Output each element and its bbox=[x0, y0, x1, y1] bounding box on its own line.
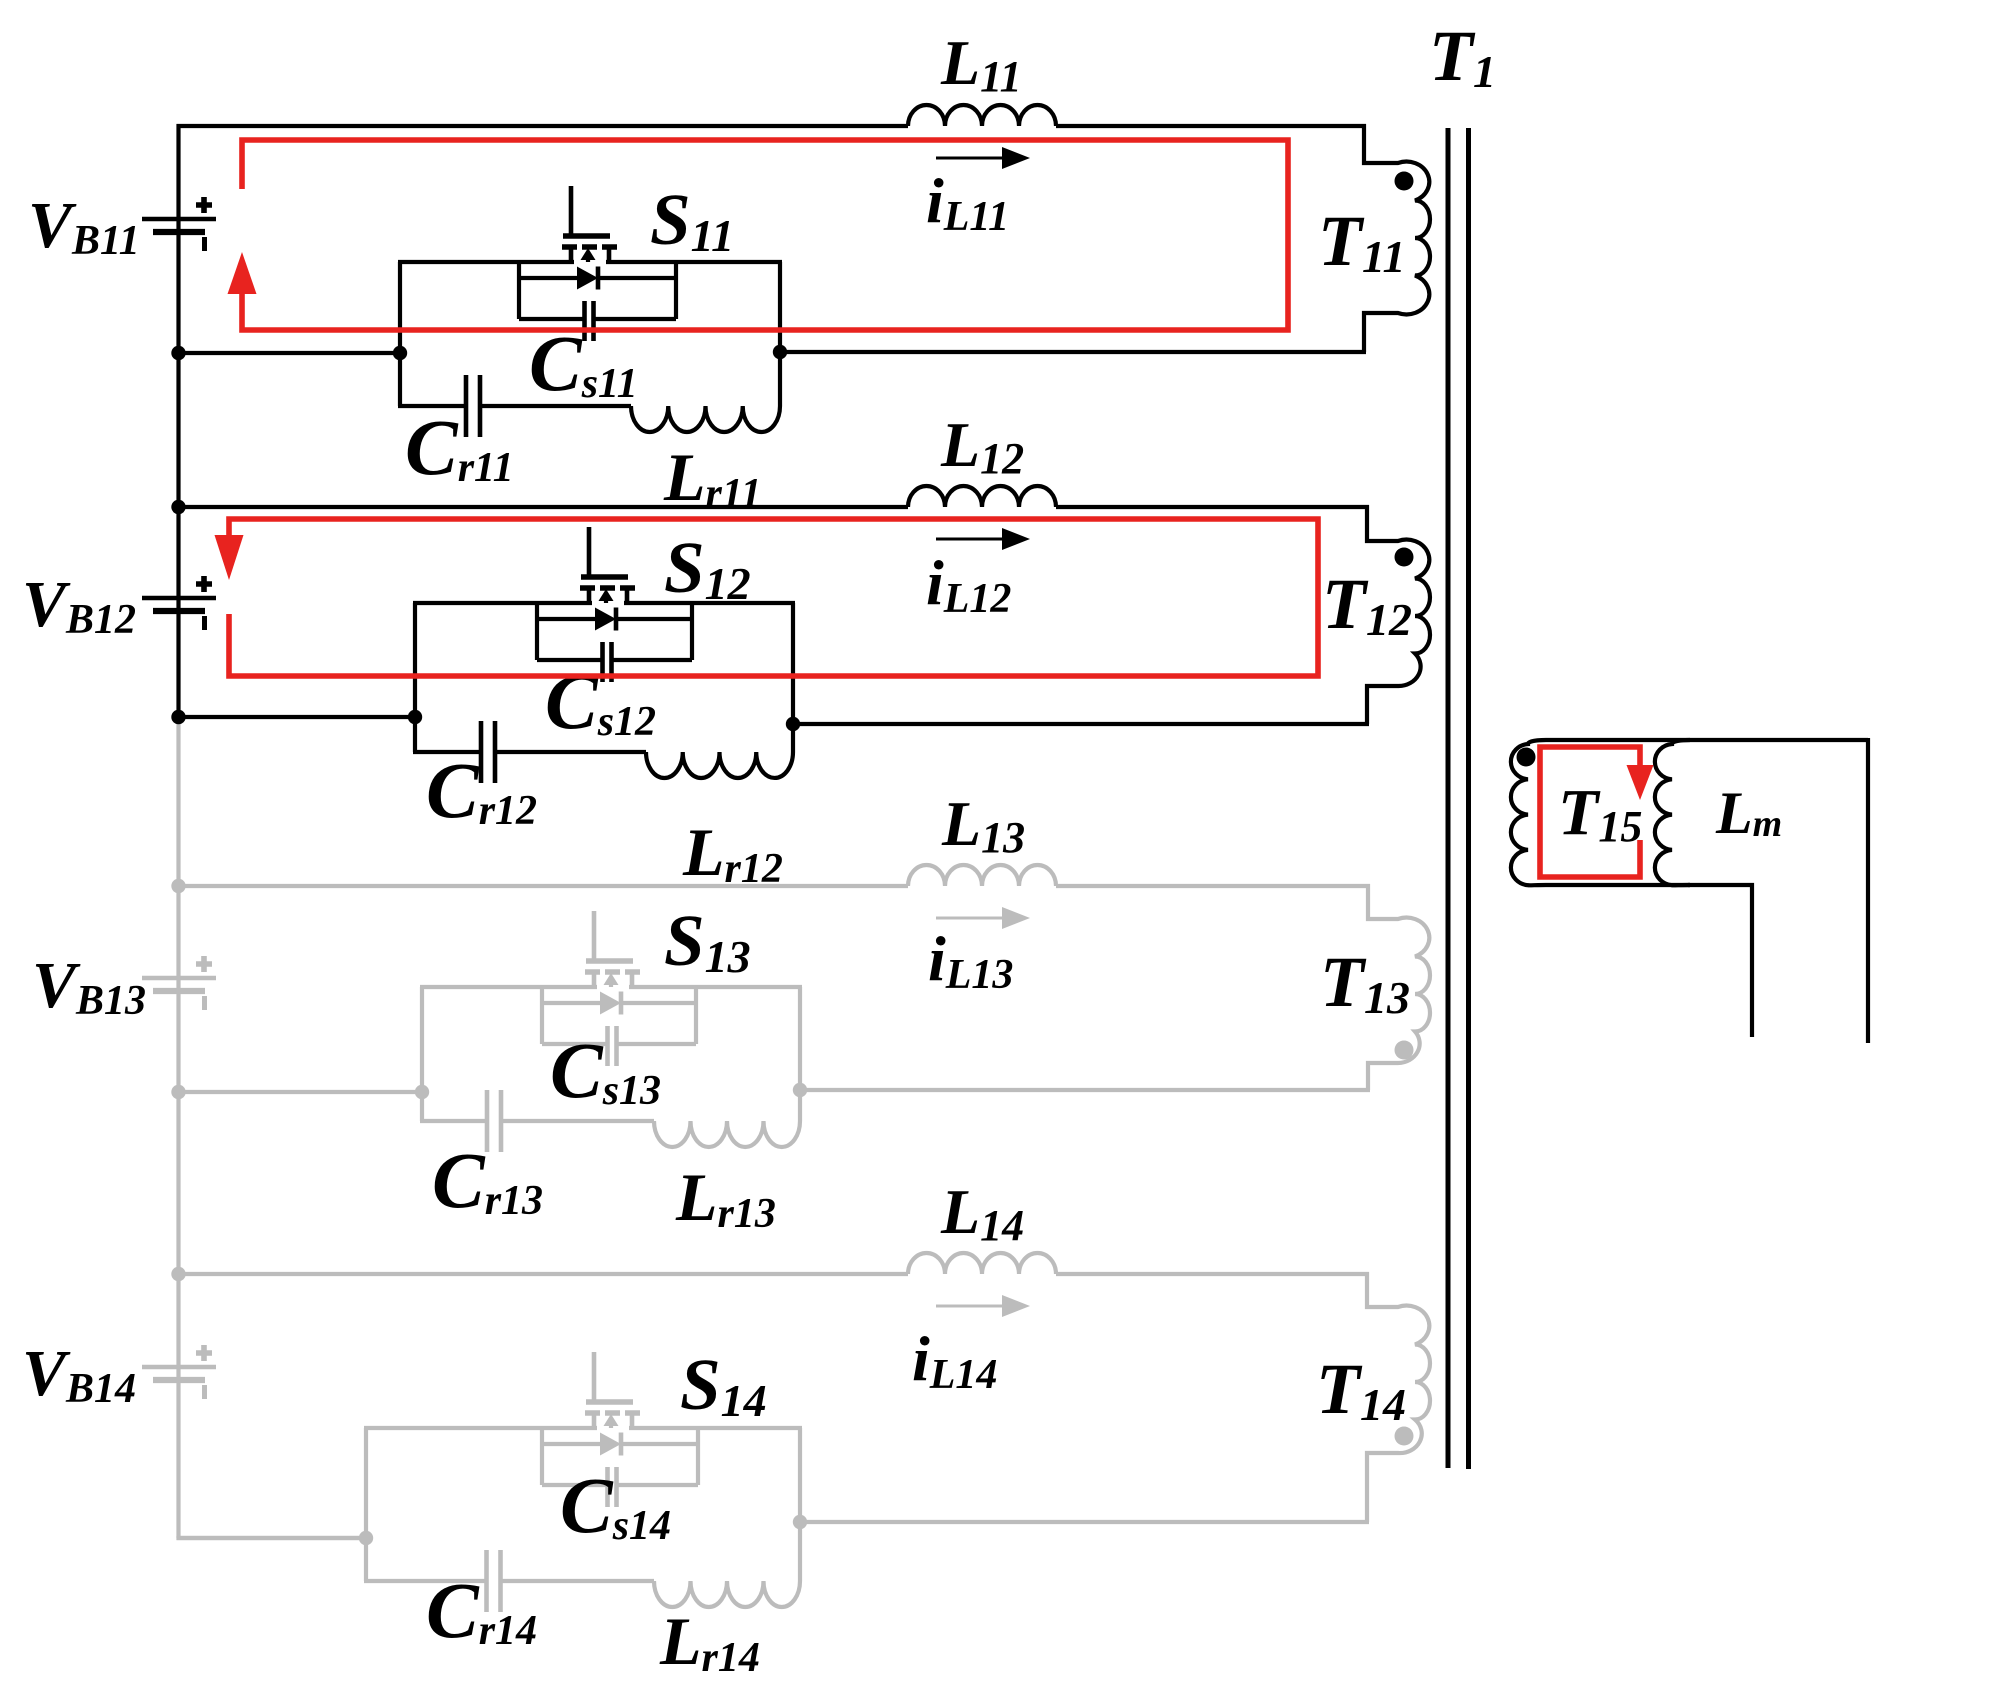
wire: cell 3 top wire (battery + to L13) bbox=[177, 884, 909, 888]
svg-text:L14: L14 bbox=[940, 1176, 1024, 1250]
red arrow (down) cell 2 bbox=[215, 535, 244, 580]
battery VB14 bbox=[142, 1345, 216, 1399]
wire: output terminal from T15/Lm top bbox=[1866, 738, 1870, 1043]
switch S14 inner loop: body diode branch bbox=[540, 1426, 544, 1485]
switch S14 assembly: outer connection box bbox=[364, 1428, 368, 1581]
svg-text:L11: L11 bbox=[940, 27, 1022, 101]
body diode of S11 bbox=[577, 267, 598, 290]
MOSFET S12: channel segments bbox=[580, 585, 595, 591]
snubber capacitor Cs14 bbox=[542, 1483, 608, 1487]
current arrow i_L12 bbox=[936, 528, 1030, 550]
svg-text:S12: S12 bbox=[664, 527, 751, 609]
resonant capacitor Cr14 bbox=[364, 1579, 487, 1583]
MOSFET S14: body arrow bbox=[604, 1414, 619, 1426]
svg-text:Lr13: Lr13 bbox=[675, 1159, 776, 1237]
MOSFET S11: source/drain legs bbox=[569, 247, 574, 262]
svg-text:T15: T15 bbox=[1558, 776, 1642, 851]
magnetizing inductor Lm bbox=[1546, 883, 1690, 887]
MOSFET S12: gate lead bbox=[587, 527, 592, 579]
red arrow (down) T15 loop bbox=[1627, 765, 1654, 800]
wire: cell 4 top wire (L14 to T14) bbox=[1056, 1272, 1369, 1276]
transformer winding T11 bbox=[1364, 124, 1430, 352]
wire: cell 2 top wire (L12 to T12) bbox=[1056, 505, 1369, 509]
red arrow (up) cell 1 bbox=[228, 252, 257, 294]
resonant capacitor Cr13 bbox=[420, 1119, 487, 1123]
battery VB12 bbox=[142, 576, 216, 630]
MOSFET S13: body arrow bbox=[604, 973, 619, 985]
wire: cell 1 bottom left (battery - to node A) bbox=[177, 351, 401, 355]
wire: left battery bus (gray section, cells 3-4) bbox=[176, 717, 180, 1538]
resonant inductor Lr13 bbox=[654, 1121, 800, 1147]
current arrow i_L13 bbox=[936, 907, 1030, 929]
junction node dots, cell 1 bbox=[171, 346, 185, 360]
junction node dots, cell 3 bbox=[171, 879, 185, 893]
svg-text:iL13: iL13 bbox=[928, 923, 1013, 998]
wire: Cr14 to Lr14 bbox=[501, 1579, 655, 1583]
switch S12 assembly: outer connection box bbox=[413, 603, 417, 752]
red current loop of T15 bbox=[1540, 747, 1640, 877]
wire: cell 3 bottom right (node B to T13) bbox=[800, 1088, 1370, 1092]
svg-text:Cr11: Cr11 bbox=[405, 405, 514, 492]
MOSFET S14: gate lead bbox=[592, 1352, 597, 1404]
wire: cell 2 bottom left (battery - to node A) bbox=[177, 715, 416, 719]
svg-text:S11: S11 bbox=[650, 179, 734, 261]
resonant inductor Lr11 bbox=[631, 406, 780, 432]
transformer winding T12 bbox=[1367, 505, 1430, 724]
wire: cell 2 top wire (battery + to L12) bbox=[177, 505, 909, 509]
wire: output terminal from Lm bottom bbox=[1688, 885, 1752, 1037]
switch S13 assembly: outer connection box bbox=[420, 987, 424, 1121]
body diode of S12 bbox=[595, 608, 616, 631]
MOSFET S11: gate lead bbox=[569, 186, 574, 238]
wire: cell 2 bottom right (node B to T12) bbox=[793, 722, 1369, 726]
wire: cell 3 top wire (L13 to T13) bbox=[1056, 884, 1370, 888]
transformer T1 core (two vertical bars) bbox=[1446, 128, 1451, 1468]
wire: Cr11 to Lr11 bbox=[480, 404, 631, 408]
transformer winding T14 bbox=[1367, 1272, 1430, 1522]
inductor L11 bbox=[908, 105, 1056, 126]
wire: cell 4 top wire (battery + to L14) bbox=[177, 1272, 909, 1276]
switch S12 inner loop: body diode branch bbox=[535, 601, 539, 660]
switch S13 inner loop: body diode branch bbox=[540, 985, 544, 1044]
switch S11 assembly: outer connection box bbox=[398, 262, 402, 406]
current arrow i_L11 bbox=[936, 147, 1030, 169]
wire: left battery bus (black section, cells 1-2) bbox=[176, 124, 180, 717]
wire: cell 4 bottom right (node B to T14) bbox=[800, 1520, 1369, 1524]
junction node dots, cell 4 bbox=[171, 1267, 185, 1281]
svg-text:VB11: VB11 bbox=[28, 189, 140, 264]
red current loop of cell 2 bbox=[229, 519, 1318, 676]
snubber capacitor Cs11 bbox=[519, 317, 585, 321]
junction node dots, cell 2 bbox=[171, 500, 185, 514]
wire: Cr12 to Lr12 bbox=[495, 750, 646, 754]
svg-text:iL11: iL11 bbox=[926, 165, 1009, 240]
transformer winding T13 bbox=[1368, 884, 1430, 1090]
inductor L14 bbox=[908, 1253, 1056, 1274]
MOSFET S11: channel segments bbox=[562, 244, 577, 250]
MOSFET S14: channel segments bbox=[585, 1410, 600, 1416]
MOSFET S14: source/drain legs bbox=[592, 1413, 597, 1428]
battery VB11 bbox=[142, 197, 216, 251]
wire: bus corner to cell-4 bottom node bbox=[176, 1536, 366, 1540]
current arrow i_L14 bbox=[936, 1295, 1030, 1317]
switch S11 inner loop: body diode branch bbox=[517, 260, 521, 319]
battery VB13 bbox=[142, 956, 216, 1010]
polarity dot of T12 bbox=[1395, 548, 1414, 567]
MOSFET S12: source/drain legs bbox=[587, 588, 592, 603]
svg-text:T11: T11 bbox=[1318, 201, 1405, 282]
svg-text:VB13: VB13 bbox=[32, 949, 146, 1024]
wire: cell 1 bottom right (node B to T11) bbox=[780, 350, 1366, 354]
wire: cell 1 top wire (L11 to T11) bbox=[1056, 124, 1366, 128]
resonant inductor Lr12 bbox=[646, 752, 793, 778]
MOSFET S13: gate lead bbox=[592, 911, 597, 963]
polarity dot of T14 bbox=[1395, 1427, 1414, 1446]
svg-text:VB14: VB14 bbox=[22, 1337, 136, 1412]
svg-text:Lm: Lm bbox=[1715, 780, 1782, 846]
svg-text:L12: L12 bbox=[940, 409, 1024, 483]
body diode of S14 bbox=[600, 1433, 621, 1456]
red current loop of cell 1 bbox=[242, 140, 1288, 330]
inductor L12 bbox=[908, 486, 1056, 507]
svg-text:iL12: iL12 bbox=[926, 547, 1011, 622]
resonant inductor Lr14 bbox=[654, 1581, 800, 1607]
svg-text:Lr12: Lr12 bbox=[682, 814, 783, 892]
svg-text:S13: S13 bbox=[664, 900, 751, 982]
polarity dot of T11 bbox=[1395, 172, 1414, 191]
MOSFET S13: channel segments bbox=[585, 969, 600, 975]
body diode of S13 bbox=[600, 992, 621, 1015]
svg-text:T14: T14 bbox=[1316, 1349, 1406, 1430]
svg-text:VB12: VB12 bbox=[22, 568, 136, 643]
snubber capacitor Cs12 bbox=[537, 658, 603, 662]
polarity dot of T13 bbox=[1395, 1041, 1414, 1060]
svg-text:T12: T12 bbox=[1322, 564, 1412, 645]
inductor L13 bbox=[908, 865, 1056, 886]
MOSFET S13: source/drain legs bbox=[592, 972, 597, 987]
wire: Cr13 to Lr13 bbox=[501, 1119, 654, 1123]
svg-text:S14: S14 bbox=[680, 1344, 767, 1426]
svg-text:Lr14: Lr14 bbox=[659, 1603, 760, 1681]
svg-text:T1: T1 bbox=[1429, 16, 1496, 97]
wire: cell 4 bottom left (battery - to node A) bbox=[177, 1536, 367, 1540]
resonant capacitor Cr11 bbox=[398, 404, 466, 408]
polarity dot of T15 bbox=[1517, 748, 1536, 767]
transformer winding T15 bbox=[1511, 740, 1868, 885]
MOSFET S12: body arrow bbox=[599, 589, 614, 601]
wire: cell 1 top wire (battery + to L11) bbox=[177, 124, 909, 128]
svg-text:L13: L13 bbox=[941, 788, 1025, 862]
resonant capacitor Cr12 bbox=[413, 750, 481, 754]
svg-text:T13: T13 bbox=[1320, 942, 1410, 1023]
snubber capacitor Cs13 bbox=[542, 1042, 608, 1046]
svg-text:iL14: iL14 bbox=[912, 1323, 997, 1398]
wire: cell 3 bottom left (battery - to node A) bbox=[177, 1090, 423, 1094]
MOSFET S11: body arrow bbox=[581, 248, 596, 260]
